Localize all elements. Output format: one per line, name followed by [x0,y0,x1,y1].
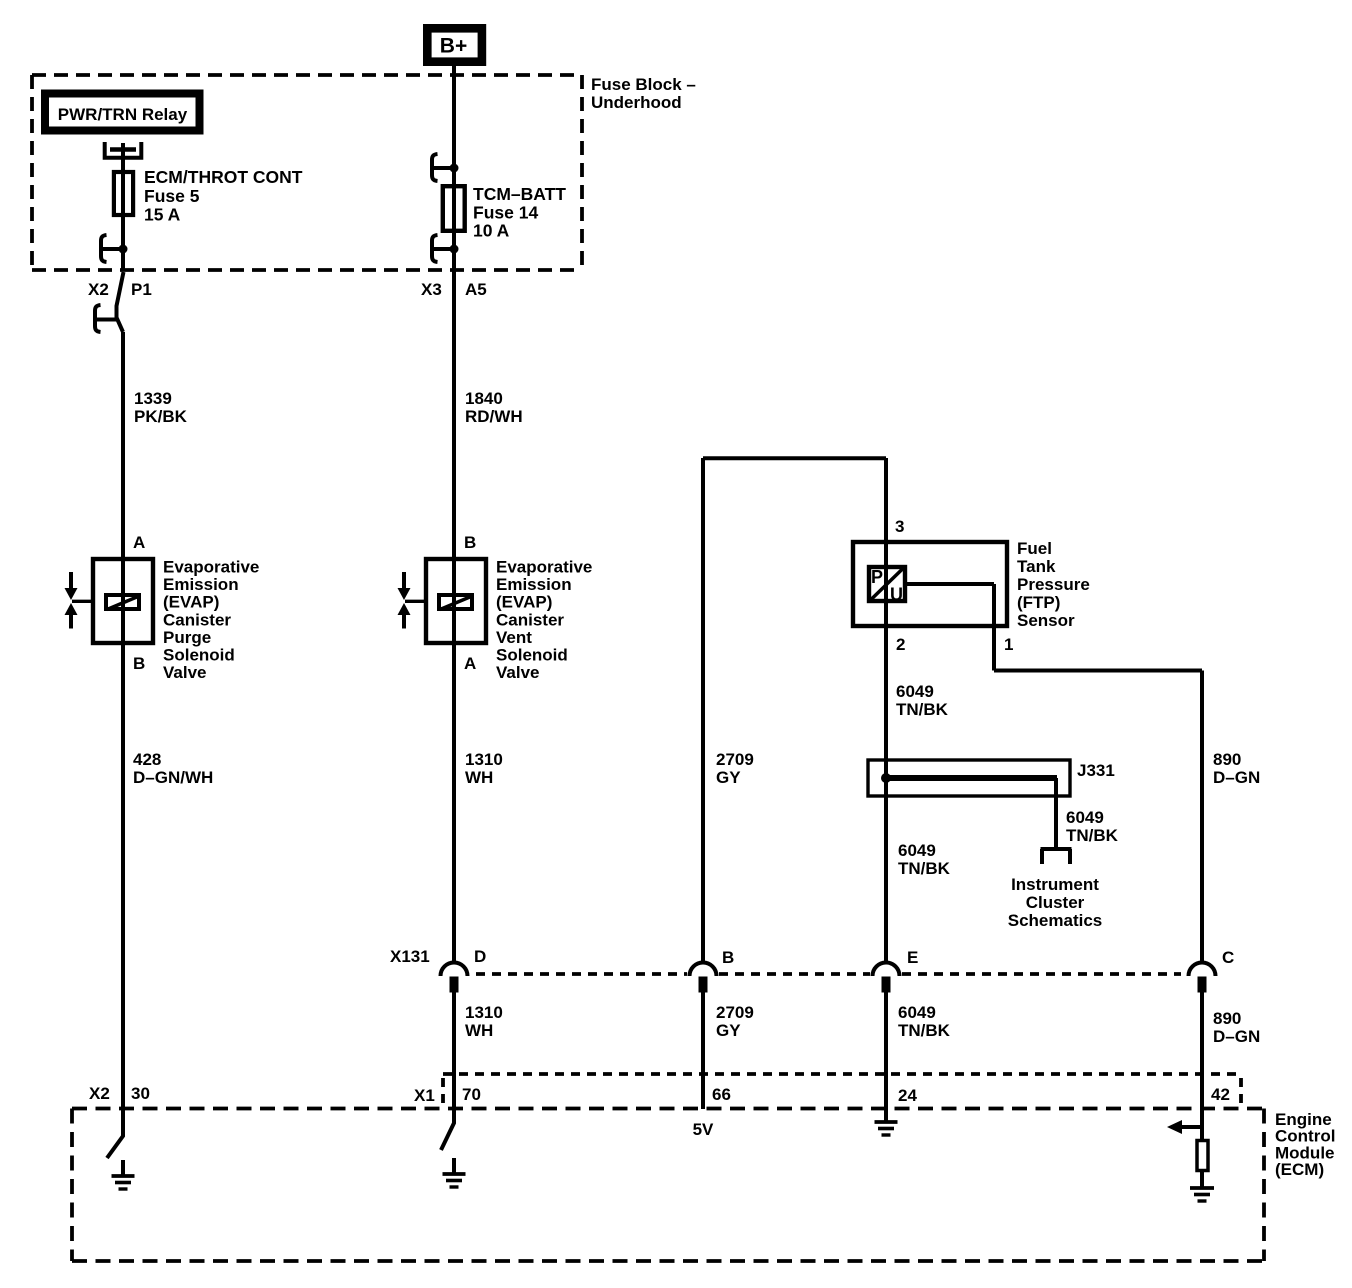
svg-text:890: 890 [1213,1009,1241,1028]
svg-text:P: P [871,567,883,587]
svg-text:GY: GY [716,1021,741,1040]
svg-text:2: 2 [896,635,905,654]
svg-text:Solenoid: Solenoid [163,646,235,665]
svg-text:15 A: 15 A [144,205,181,225]
svg-text:Canister: Canister [496,610,564,629]
svg-text:Cluster: Cluster [1026,893,1085,912]
svg-text:A: A [133,533,145,552]
svg-text:Emission: Emission [496,575,572,594]
svg-text:890: 890 [1213,750,1241,769]
svg-text:D–GN: D–GN [1213,1027,1260,1046]
svg-text:24: 24 [898,1086,917,1105]
svg-text:6049: 6049 [898,1003,936,1022]
svg-text:1310: 1310 [465,1003,503,1022]
svg-text:WH: WH [465,768,493,787]
svg-text:TN/BK: TN/BK [1066,826,1119,845]
svg-text:(ECM): (ECM) [1275,1160,1324,1179]
svg-text:2709: 2709 [716,1003,754,1022]
svg-text:RD/WH: RD/WH [465,407,523,426]
svg-text:PWR/TRN Relay: PWR/TRN Relay [58,105,188,124]
svg-text:Pressure: Pressure [1017,575,1090,594]
svg-text:Solenoid: Solenoid [496,646,568,665]
svg-text:PK/BK: PK/BK [134,407,188,426]
svg-text:TN/BK: TN/BK [898,1021,951,1040]
svg-text:Fuse Block –: Fuse Block – [591,75,696,94]
svg-text:Schematics: Schematics [1008,911,1103,930]
svg-text:Fuse 14: Fuse 14 [473,203,538,223]
svg-text:WH: WH [465,1021,493,1040]
svg-text:TCM–BATT: TCM–BATT [473,184,566,204]
svg-text:Instrument: Instrument [1011,875,1099,894]
svg-text:A5: A5 [465,280,487,299]
svg-text:ECM/THROT CONT: ECM/THROT CONT [144,167,303,187]
svg-text:428: 428 [133,750,161,769]
svg-text:B: B [133,654,145,673]
svg-text:P1: P1 [131,280,152,299]
svg-text:2709: 2709 [716,750,754,769]
svg-text:B: B [722,948,734,967]
svg-text:Tank: Tank [1017,557,1056,576]
svg-text:J331: J331 [1077,761,1115,780]
svg-text:Valve: Valve [496,663,540,682]
svg-text:10 A: 10 A [473,221,510,241]
svg-text:66: 66 [712,1085,731,1104]
svg-text:D: D [474,947,486,966]
svg-text:Evaporative: Evaporative [163,558,259,577]
svg-text:Sensor: Sensor [1017,611,1075,630]
svg-text:6049: 6049 [1066,808,1104,827]
svg-text:3: 3 [895,517,904,536]
svg-text:70: 70 [462,1085,481,1104]
svg-text:42: 42 [1211,1085,1230,1104]
svg-text:6049: 6049 [898,841,936,860]
svg-text:X2: X2 [89,1084,110,1103]
svg-text:1310: 1310 [465,750,503,769]
svg-text:GY: GY [716,768,741,787]
svg-text:B+: B+ [440,35,467,58]
svg-text:E: E [907,948,918,967]
svg-text:Canister: Canister [163,610,231,629]
svg-text:U: U [890,585,903,605]
svg-text:D–GN/WH: D–GN/WH [133,768,213,787]
svg-text:Purge: Purge [163,628,211,647]
svg-text:TN/BK: TN/BK [898,859,951,878]
svg-text:Underhood: Underhood [591,93,682,112]
svg-text:(EVAP): (EVAP) [163,593,219,612]
svg-text:1840: 1840 [465,389,503,408]
svg-text:1339: 1339 [134,389,172,408]
svg-text:1: 1 [1004,635,1013,654]
svg-text:5V: 5V [693,1120,714,1139]
svg-text:6049: 6049 [896,682,934,701]
svg-text:(FTP): (FTP) [1017,593,1060,612]
svg-text:X3: X3 [421,280,442,299]
svg-text:X131: X131 [390,947,430,966]
svg-text:B: B [464,533,476,552]
svg-text:TN/BK: TN/BK [896,700,949,719]
svg-text:Vent: Vent [496,628,532,647]
svg-text:A: A [464,654,476,673]
svg-text:Fuel: Fuel [1017,539,1052,558]
svg-text:Evaporative: Evaporative [496,558,592,577]
svg-text:Fuse 5: Fuse 5 [144,186,200,206]
svg-text:D–GN: D–GN [1213,768,1260,787]
svg-text:X1: X1 [414,1086,435,1105]
svg-text:Emission: Emission [163,575,239,594]
svg-text:(EVAP): (EVAP) [496,593,552,612]
svg-text:30: 30 [131,1084,150,1103]
svg-text:Valve: Valve [163,663,207,682]
svg-text:X2: X2 [88,280,109,299]
svg-text:C: C [1222,948,1234,967]
